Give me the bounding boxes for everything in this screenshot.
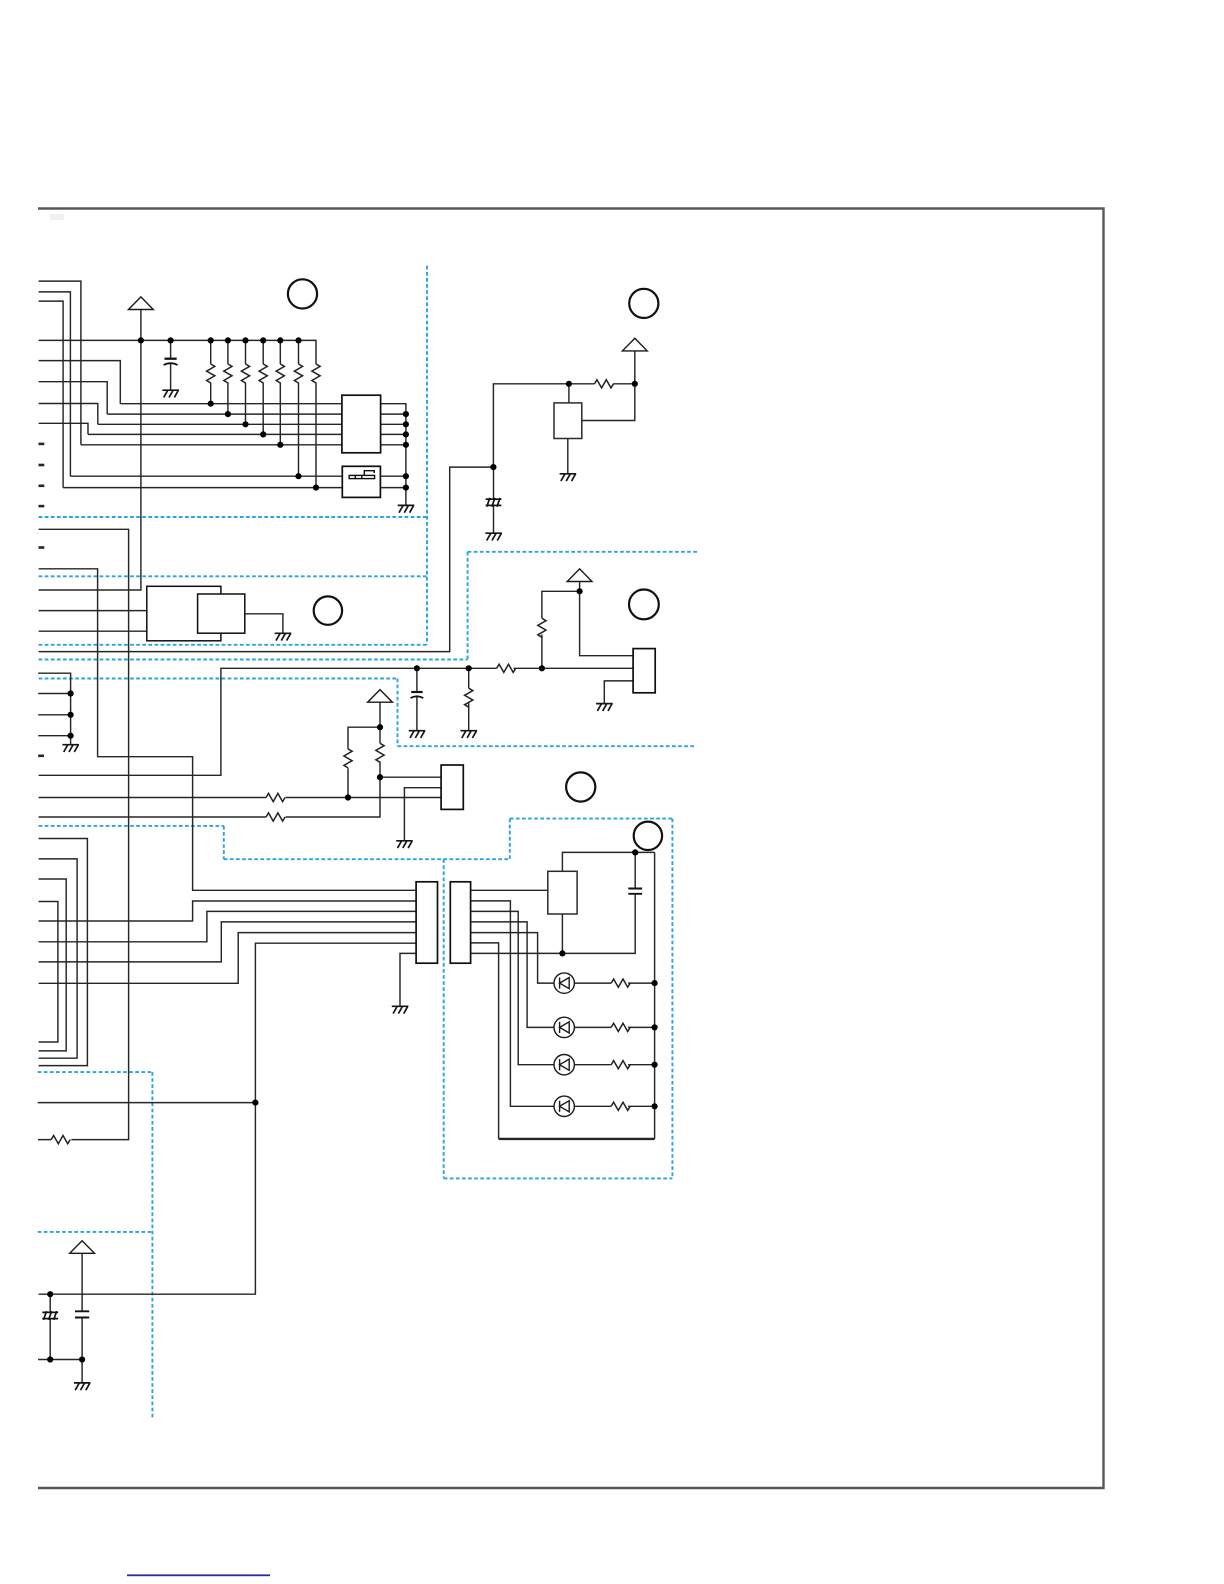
switch box SW bbox=[342, 466, 380, 497]
wire subA box bottom to ground bbox=[567, 439, 569, 474]
wire W6 riser to CN1 bbox=[39, 943, 417, 1294]
node R1-L1 bbox=[208, 401, 214, 407]
connector box CNA bbox=[342, 395, 381, 453]
wire CN2 r1 to relay2 bbox=[471, 889, 548, 891]
circle marker C2 bbox=[629, 289, 658, 318]
ground G8 wireB resistor bbox=[461, 731, 478, 738]
wire rail y=1102.6 bbox=[38, 1102, 256, 1104]
node stub bus 1 bbox=[68, 690, 74, 696]
stub wire b bbox=[39, 464, 45, 467]
wire CN2 r2 to LED4 bbox=[471, 901, 554, 1106]
LED D4 bbox=[554, 1096, 574, 1116]
ground G3 subA box bbox=[560, 474, 577, 481]
wire subC right resistor branch bbox=[380, 727, 441, 777]
wire bottom resistor rail riser x=128.6 bbox=[38, 529, 129, 1139]
relay inner box bbox=[198, 594, 245, 633]
resistor subA horizontal bbox=[595, 380, 614, 388]
wire subC left resistor branch bbox=[348, 727, 380, 797]
node busA-L5 bbox=[403, 442, 409, 448]
dashed vertical x=509.8 bbox=[509, 819, 511, 860]
resistor array R1 bbox=[207, 364, 215, 383]
node rail1294 slashed cap bbox=[47, 1291, 53, 1297]
wire CN2 r3 to LED3 bbox=[471, 911, 554, 1064]
circle marker C3 bbox=[314, 596, 342, 624]
resistor LED3 bbox=[611, 1061, 630, 1069]
circle marker C4 bbox=[629, 590, 659, 620]
ground G9 subB box bbox=[596, 704, 613, 711]
dashed separator y=645 bbox=[39, 644, 427, 646]
node subB res bottom bbox=[539, 665, 545, 671]
node R2-L2 bbox=[225, 411, 231, 417]
dashed box right x=672.4 bbox=[671, 819, 673, 1179]
ground G2 network bus bbox=[398, 505, 415, 512]
wire B main rail riser bbox=[39, 668, 417, 775]
wire step to L1 bbox=[39, 361, 121, 404]
wire L2 bbox=[107, 413, 342, 415]
node subA res-box bbox=[566, 381, 572, 387]
dashed separator y=1231.9 bbox=[38, 1231, 153, 1233]
wire subB box feed bbox=[580, 591, 634, 655]
wire CN1 pin7 to ground bbox=[400, 953, 416, 1006]
power triangle D bottom-left bbox=[70, 1241, 95, 1254]
stub wire e bbox=[39, 546, 45, 549]
wire subB box bottom to ground bbox=[604, 681, 633, 704]
wire B main rail to box bbox=[417, 667, 633, 669]
connector box CN2 bbox=[450, 882, 470, 963]
node R6-L6 bbox=[295, 473, 301, 479]
node stub bus 2 bbox=[68, 712, 74, 718]
wire subC rail 2 bbox=[39, 777, 380, 817]
dashed separator y=576 bbox=[39, 575, 427, 577]
resistor bottom-left bbox=[51, 1136, 70, 1144]
node busA-L2 bbox=[403, 411, 409, 417]
node tie rail left bbox=[47, 1356, 53, 1362]
node bus-R2 bbox=[225, 337, 231, 343]
dashed separator y=517 bbox=[39, 516, 427, 518]
node subC power bbox=[377, 724, 383, 730]
ferrite bead subA bbox=[486, 498, 502, 507]
wire CN2 r4 to LED2 bbox=[471, 922, 554, 1028]
resistor subC left bbox=[344, 749, 352, 768]
wire LED anode bus bbox=[654, 852, 656, 1139]
resistor array R7 bbox=[312, 364, 320, 383]
node bus-R5 bbox=[277, 337, 283, 343]
node wireB cap bbox=[414, 665, 420, 671]
wire W5 to CN1 bbox=[39, 933, 417, 984]
resistor subC rail2 bbox=[266, 813, 285, 821]
wire B resistor branch bbox=[468, 668, 470, 730]
node subA left drop bbox=[490, 464, 496, 470]
node tie rail right bbox=[79, 1356, 85, 1362]
wire step to L4 bbox=[39, 423, 88, 434]
wire top-left 1 to L5 bbox=[39, 281, 81, 445]
ferrite bead bottom-left bbox=[42, 1311, 58, 1320]
resistor LED1 bbox=[611, 979, 630, 987]
wire relay feed 1 bbox=[39, 610, 147, 612]
dashed vertical x=223.8 bbox=[223, 826, 225, 859]
wire W2 to CN1 bbox=[39, 901, 417, 921]
wire C-loop 1 bbox=[39, 839, 88, 1066]
switch icon bbox=[349, 471, 374, 479]
footer link underline bbox=[127, 1574, 270, 1576]
stub wire f bbox=[38, 754, 44, 757]
node busA-L7 bbox=[403, 485, 409, 491]
wire resistor bus right verticals R1-R7 bbox=[210, 340, 212, 403]
wire bus cap drop bbox=[170, 340, 172, 390]
node busA-L6 bbox=[403, 473, 409, 479]
wire subB top link bbox=[542, 591, 580, 668]
wire bus VCC top bbox=[39, 340, 316, 364]
wire LED bottom rail bbox=[499, 1138, 655, 1140]
wire C-loop 2 bbox=[39, 859, 78, 1058]
dashed box top y=818.6 bbox=[510, 818, 673, 820]
LED D1 bbox=[554, 973, 574, 993]
wire C-loop 3 bbox=[39, 879, 67, 1051]
wire W3 to CN1 bbox=[39, 911, 417, 941]
wire relay feed 2 bbox=[39, 630, 147, 632]
wire top-left 3 to L7 bbox=[39, 301, 64, 488]
wire relay output to ground bbox=[245, 614, 283, 634]
power triangle A1 bbox=[129, 297, 154, 310]
node bus-R3 bbox=[242, 337, 248, 343]
ground G11 CN1 pin7 bbox=[392, 1006, 409, 1013]
node LED3 bus bbox=[652, 1062, 658, 1068]
node relay2 bottom bbox=[559, 950, 565, 956]
capacitor LED bus bbox=[628, 889, 642, 894]
node busA-L4 bbox=[403, 431, 409, 437]
stub wire a bbox=[39, 443, 45, 446]
resistor subC rail1 bbox=[266, 793, 285, 801]
capacitor bus C1 (curved plate) bbox=[164, 359, 178, 365]
node LED1 bus bbox=[652, 980, 658, 986]
node bus-R6 bbox=[295, 337, 301, 343]
wire bottom-left tie rail bbox=[38, 1359, 82, 1361]
wire subA top rail bbox=[39, 384, 635, 652]
ground G7 wireB cap bbox=[409, 731, 426, 738]
wire L4 bbox=[88, 433, 342, 435]
dashed vertical x=152.4 bbox=[151, 1072, 153, 1419]
resistor subC right bbox=[376, 743, 384, 762]
wire CN2 r6 to LED return rail bbox=[471, 943, 499, 1139]
wire bottom-left rail y=1294 triangle branch bbox=[81, 1253, 83, 1383]
resistor LED4 bbox=[611, 1102, 630, 1110]
circle marker C1 bbox=[288, 279, 317, 308]
dashed separator y=859.2 bbox=[224, 858, 510, 860]
resistor array R4 bbox=[259, 364, 267, 383]
resistor wireB shunt bbox=[465, 688, 473, 707]
wire C-loop 4 bbox=[39, 902, 58, 1043]
faint header smudge bbox=[50, 214, 64, 220]
page frame border bbox=[38, 209, 1104, 1489]
circle marker C5 bbox=[566, 772, 595, 801]
node busA-L3 bbox=[403, 421, 409, 427]
connector box subB bbox=[633, 649, 655, 693]
node R7-L7 bbox=[313, 485, 319, 491]
wire L5 bbox=[81, 444, 342, 446]
connector box subA bbox=[554, 403, 582, 439]
wire step to L2 bbox=[39, 382, 108, 414]
resistor array R6 bbox=[294, 364, 302, 383]
wire step to L3 bbox=[39, 404, 98, 425]
node rail1102 bbox=[252, 1100, 258, 1106]
wire top-left 2 to L6 bbox=[39, 292, 71, 476]
wire gnd stub bus x=70.6 bbox=[38, 673, 70, 745]
resistor wireB series bbox=[497, 664, 516, 672]
stub wire c bbox=[39, 484, 45, 487]
wire left stub y=569 riser bbox=[39, 569, 417, 891]
wire LED2 row bbox=[575, 1026, 655, 1028]
dashed separator y=551.8 bbox=[468, 551, 697, 553]
stub wire d bbox=[39, 505, 45, 508]
wire subA box right loop bbox=[582, 384, 635, 421]
ground G10 subC bbox=[396, 841, 413, 848]
wire subA box feed bbox=[568, 384, 570, 403]
dashed separator y=678.5 bbox=[39, 678, 398, 680]
power triangle C (sub C) bbox=[368, 690, 393, 703]
connector box CN1 bbox=[416, 882, 437, 963]
node bus-R4 bbox=[260, 337, 266, 343]
ground G4 below slashed cap bbox=[485, 533, 502, 540]
capacitor wireB (curved plate) bbox=[411, 692, 424, 698]
relay outer box bbox=[147, 586, 221, 641]
resistor subB vertical bbox=[538, 618, 546, 637]
node wireB res bbox=[466, 665, 472, 671]
ground G6 stub bus bbox=[62, 745, 79, 752]
node R3-L3 bbox=[242, 421, 248, 427]
wire subA ferrite bead branch bbox=[493, 467, 495, 533]
node subB power bbox=[577, 588, 583, 594]
capacitor bottom-left bbox=[75, 1311, 89, 1317]
wire relay2 bottom leg bbox=[561, 914, 563, 953]
wire relay2 top feed bbox=[562, 852, 654, 871]
LED D3 bbox=[554, 1055, 574, 1075]
resistor array R3 bbox=[241, 364, 249, 383]
wire triangle A1 drop bbox=[39, 310, 141, 591]
wire LED1 row bbox=[575, 982, 655, 984]
ground G12 bottom-left bbox=[74, 1383, 91, 1390]
node subC left res bbox=[345, 794, 351, 800]
wire LED3 row bbox=[575, 1064, 655, 1066]
node R5-L5 bbox=[277, 442, 283, 448]
wire subC rail 1 bbox=[39, 797, 442, 799]
dashed vertical x=467.6 bbox=[467, 552, 469, 660]
wire subA power drop bbox=[634, 351, 636, 384]
dashed separator y=825.9 bbox=[39, 825, 224, 827]
wire W4 to CN1 bbox=[39, 922, 417, 962]
ground G1 bus cap bbox=[162, 390, 179, 397]
wire L7 bbox=[63, 487, 342, 489]
node subA power bbox=[632, 381, 638, 387]
power triangle A (sub A) bbox=[622, 338, 647, 351]
dashed box left x=443.7 bbox=[443, 859, 445, 1178]
node stub bus 3 bbox=[68, 733, 74, 739]
ground G5 relay bbox=[275, 633, 292, 640]
resistor LED2 bbox=[611, 1023, 630, 1031]
dashed separator y=659.5 bbox=[39, 659, 468, 661]
power triangle B (sub B) bbox=[567, 569, 592, 582]
dashed separator y=746.2 bbox=[398, 745, 697, 747]
wire CN2 r7 rail bbox=[471, 852, 636, 953]
LED D2 bbox=[554, 1017, 574, 1037]
node bus-cap bbox=[168, 337, 174, 343]
wire subC power drop bbox=[379, 702, 381, 727]
node subC right res bbox=[377, 774, 383, 780]
connector box subC bbox=[441, 765, 463, 809]
dashed vertical x=397.5 bbox=[397, 679, 399, 747]
dashed box bottom y=1178.4 bbox=[444, 1177, 673, 1179]
wire B cap branch bbox=[416, 668, 418, 730]
resistor array R5 bbox=[276, 364, 284, 383]
relay2 box LED area bbox=[548, 871, 577, 914]
node bus-triangleA1 bbox=[138, 337, 144, 343]
wire subB power drop bbox=[579, 582, 581, 592]
node R4-L4 bbox=[260, 431, 266, 437]
wire bottom-left ferrite bead branch bbox=[49, 1294, 51, 1359]
wire LED4 row bbox=[575, 1105, 655, 1107]
wire subC box gnd leg bbox=[404, 788, 441, 841]
dashed separator y=1072.1 bbox=[38, 1071, 153, 1073]
node bus-R1 bbox=[208, 337, 214, 343]
node relay2 cap bbox=[632, 849, 638, 855]
dashed vertical x=427 bbox=[426, 266, 428, 645]
wire L3 bbox=[98, 423, 342, 425]
wire right bus of connector A bbox=[380, 404, 406, 506]
wire L6 bbox=[70, 475, 342, 477]
resistor array R2 bbox=[224, 364, 232, 383]
wire L1 bbox=[120, 403, 342, 405]
wire CN2 r5 to LED1 bbox=[471, 933, 554, 984]
node LED2 bus bbox=[652, 1024, 658, 1030]
node LED4 bus bbox=[652, 1103, 658, 1109]
circle marker C6 bbox=[634, 822, 662, 850]
